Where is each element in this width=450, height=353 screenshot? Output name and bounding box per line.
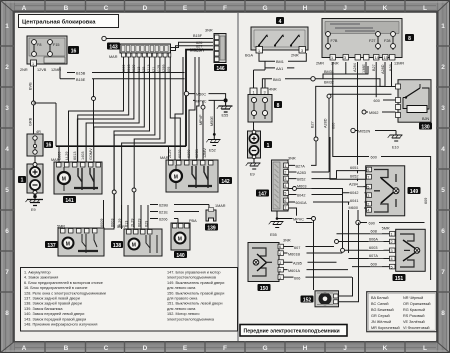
svg-text:6: 6 [279, 245, 281, 249]
svg-text:Передние электростеклоподъемни: Передние электростеклоподъемники [244, 329, 340, 335]
svg-text:608: 608 [371, 230, 377, 234]
svg-text:16: 16 [71, 48, 77, 54]
wires BM31 BM32 [315, 70, 348, 85]
svg-text:140: 140 [176, 253, 185, 259]
component label 147 [256, 190, 269, 198]
svg-text:D: D [143, 5, 148, 12]
bus drops to lock MAR pins [59, 146, 169, 162]
svg-text:BM1: BM1 [276, 60, 284, 64]
wire BM1 [259, 53, 306, 64]
svg-text:8: 8 [408, 36, 411, 42]
svg-text:BM3: BM3 [273, 78, 281, 82]
svg-text:2: 2 [5, 64, 9, 71]
svg-text:H: H [303, 5, 308, 12]
svg-text:600: 600 [374, 99, 380, 103]
wire 690 with node [356, 210, 425, 226]
ground E10 [388, 131, 403, 142]
svg-text:609: 609 [371, 262, 377, 266]
wire colour legend table [367, 292, 437, 332]
svg-text:BG Бежевый: BG Бежевый [371, 308, 394, 312]
svg-text:4. Замок зажигания: 4. Замок зажигания [24, 276, 58, 280]
svg-text:A28D: A28D [381, 64, 385, 74]
window switch 151 [382, 227, 426, 272]
bold bus wire to door locks [56, 145, 186, 147]
svg-text:1. Аккумулятор: 1. Аккумулятор [24, 271, 51, 275]
window switch 150 [248, 239, 291, 282]
passenger fuse box (right, label 8) [322, 19, 402, 61]
svg-text:6: 6 [284, 199, 286, 203]
svg-text:629B: 629B [195, 149, 199, 158]
svg-text:MPVF: MPVF [199, 114, 203, 125]
wire from B15E down to bus [93, 79, 95, 146]
svg-text:5: 5 [5, 187, 9, 194]
component label 149 [408, 187, 421, 195]
svg-text:147. Блок управления и мотор: 147. Блок управления и мотор [167, 271, 220, 275]
svg-text:K: K [383, 345, 388, 352]
svg-text:3NR: 3NR [283, 239, 291, 243]
svg-text:3: 3 [5, 105, 9, 112]
svg-text:629B: 629B [159, 204, 168, 208]
svg-text:146: 146 [216, 66, 225, 72]
svg-text:150. Выключатель правой двери: 150. Выключатель правой двери [167, 291, 224, 295]
svg-text:E10: E10 [392, 146, 399, 150]
svg-text:M600: M600 [349, 206, 359, 210]
component label 8 (right box) [405, 34, 414, 42]
svg-text:6013: 6013 [73, 152, 77, 160]
svg-text:RS Розовый: RS Розовый [403, 314, 424, 318]
connector 147 (window control unit) [272, 157, 296, 212]
svg-text:3NR: 3NR [205, 29, 213, 33]
svg-text:RG Красный: RG Красный [403, 308, 425, 312]
svg-text:600: 600 [332, 123, 336, 129]
wire MPVF vertical [202, 109, 204, 160]
svg-text:3NR: 3NR [288, 157, 296, 161]
svg-text:6206: 6206 [159, 218, 167, 222]
fuse F7B [327, 31, 329, 50]
svg-text:M601A: M601A [288, 269, 300, 273]
svg-text:606A: 606A [369, 237, 378, 241]
svg-text:6. Блок предохранителей в мото: 6. Блок предохранителей в моторном отсек… [24, 281, 103, 285]
svg-text:629: 629 [144, 221, 148, 227]
wire M062 [362, 109, 396, 115]
svg-text:2MR: 2MR [316, 62, 324, 66]
svg-text:B27A: B27A [296, 164, 306, 168]
svg-text:L: L [423, 345, 427, 352]
svg-text:2L29: 2L29 [168, 150, 172, 158]
svg-text:1: 1 [267, 143, 270, 149]
svg-text:2: 2 [279, 268, 281, 272]
svg-text:M601B: M601B [288, 252, 300, 256]
svg-text:BGA: BGA [245, 54, 253, 58]
ignition switch 4 [245, 27, 308, 58]
svg-text:2: 2 [284, 171, 286, 175]
svg-text:Центральная блокировка: Центральная блокировка [22, 19, 96, 26]
svg-text:NR Чёрный: NR Чёрный [403, 296, 423, 300]
svg-text:607A: 607A [369, 254, 378, 258]
node B15F with wire to 146 [102, 29, 213, 41]
svg-text:2: 2 [391, 240, 393, 244]
component label 6 [68, 46, 79, 54]
svg-text:6041: 6041 [350, 199, 358, 203]
svg-text:5MR: 5MR [382, 227, 390, 231]
svg-text:16: 16 [46, 143, 52, 149]
svg-text:2NR: 2NR [20, 68, 28, 72]
wire M50E vertical [213, 100, 215, 134]
svg-text:B27: B27 [372, 64, 376, 71]
svg-text:электростеклоподъемников: электростеклоподъемников [167, 276, 216, 280]
svg-text:148. Приемник инфракрасного из: 148. Приемник инфракрасного излучения [24, 323, 97, 327]
svg-text:149: 149 [410, 189, 419, 195]
svg-text:6: 6 [5, 228, 9, 235]
svg-text:L: L [423, 5, 427, 12]
147 pin wires and labels [289, 141, 349, 253]
interior fuse block 8 [248, 95, 272, 123]
svg-text:C: C [104, 345, 109, 352]
svg-text:F7B: F7B [331, 39, 338, 43]
svg-text:BC Синий: BC Синий [371, 302, 389, 306]
svg-text:E55: E55 [270, 233, 277, 237]
svg-text:152. Мотор левого: 152. Мотор левого [167, 312, 199, 316]
fuse block 16 [27, 130, 43, 156]
connector pins 1 3 (box 8 top) [250, 68, 277, 95]
svg-text:B15F: B15F [193, 34, 203, 38]
svg-text:BVB: BVB [29, 82, 33, 90]
svg-text:для правого окна: для правого окна [167, 297, 198, 301]
wires 626 627 to connector 146 [171, 42, 214, 50]
frame grid numbers right [441, 23, 445, 317]
svg-text:4: 4 [367, 209, 369, 213]
component label 139 [205, 224, 218, 232]
svg-text:2NR: 2NR [331, 62, 339, 66]
svg-text:7: 7 [441, 269, 445, 276]
svg-text:8: 8 [441, 310, 445, 317]
wire BM3 with node [262, 76, 315, 88]
svg-text:для левого окна: для левого окна [167, 307, 196, 311]
svg-text:130: 130 [421, 124, 430, 130]
svg-text:F28: F28 [384, 39, 391, 43]
svg-text:609: 609 [424, 198, 428, 204]
svg-text:140. Замок передней левой двер: 140. Замок передней левой двери [24, 312, 84, 316]
svg-text:A: A [22, 345, 27, 352]
svg-text:VE Зелёный: VE Зелёный [403, 320, 425, 324]
svg-text:J: J [343, 5, 347, 12]
pin wire labels below fuse box [316, 62, 404, 75]
wire 600 top [333, 66, 431, 280]
svg-text:7: 7 [5, 269, 9, 276]
pin 1 [31, 60, 37, 66]
title box Центральная блокировка [19, 15, 119, 28]
svg-text:4: 4 [279, 19, 282, 25]
svg-text:138: 138 [113, 243, 122, 249]
svg-text:1: 1 [21, 178, 24, 184]
svg-text:M603: M603 [297, 184, 307, 188]
svg-text:6029: 6029 [137, 219, 141, 227]
svg-text:M623A: M623A [190, 48, 205, 53]
component label 138 [111, 241, 123, 249]
component label 130 [419, 123, 432, 131]
svg-text:1: 1 [391, 233, 393, 237]
svg-text:MAR: MAR [51, 158, 60, 162]
svg-text:142: 142 [221, 179, 230, 185]
svg-text:1: 1 [258, 49, 260, 53]
pin squares bottom [330, 55, 395, 61]
svg-text:VI Фиолетовый: VI Фиолетовый [403, 326, 430, 330]
svg-text:6042: 6042 [350, 191, 358, 195]
svg-text:5MR: 5MR [117, 225, 125, 229]
relay 130 [396, 80, 432, 123]
frame grid letters top [22, 5, 427, 12]
component label 4 [276, 17, 284, 25]
svg-text:143: 143 [109, 44, 118, 50]
svg-text:4: 4 [391, 257, 393, 261]
wire AA1 [265, 61, 294, 71]
svg-text:1: 1 [32, 62, 34, 66]
component label 151 [393, 274, 406, 282]
fuse box 6 (engine bay fuse box) [20, 36, 67, 72]
svg-text:B15E: B15E [76, 78, 86, 82]
150 pin wires [284, 247, 353, 278]
svg-text:137. Замок задней левой двери: 137. Замок задней левой двери [24, 297, 80, 301]
svg-text:3: 3 [284, 177, 286, 181]
svg-text:600: 600 [371, 156, 377, 160]
wires between lock rows [104, 192, 149, 229]
svg-text:MPVC: MPVC [196, 99, 207, 103]
svg-text:M: M [132, 243, 136, 249]
svg-text:C: C [104, 5, 109, 12]
svg-text:2: 2 [441, 64, 445, 71]
svg-text:H: H [303, 345, 308, 352]
svg-text:E52: E52 [209, 149, 216, 153]
svg-text:606: 606 [294, 276, 300, 280]
svg-text:MAR: MAR [160, 156, 169, 160]
wire 629B [150, 202, 209, 208]
svg-text:OR Оранжевый: OR Оранжевый [403, 302, 431, 306]
svg-text:143. Замок передней правой две: 143. Замок передней правой двери [24, 317, 86, 321]
svg-text:1403: 1403 [81, 152, 85, 160]
wire M052N with ground E10 [351, 128, 396, 134]
svg-text:GR Серый: GR Серый [371, 314, 390, 318]
wires BM31/BM32 to relay [348, 66, 396, 87]
svg-text:3: 3 [441, 105, 445, 112]
wire MPVC lower [293, 216, 316, 290]
svg-text:8: 8 [5, 310, 9, 317]
svg-text:139. Замок багажника: 139. Замок багажника [24, 307, 63, 311]
svg-text:LL29: LL29 [65, 152, 69, 160]
svg-text:AA1: AA1 [276, 67, 283, 71]
svg-text:5: 5 [441, 187, 445, 194]
svg-text:B15B: B15B [76, 72, 86, 76]
svg-text:7: 7 [367, 176, 369, 180]
centre divider line [237, 13, 239, 341]
svg-text:6029: 6029 [178, 150, 182, 158]
svg-text:3: 3 [391, 249, 393, 253]
svg-text:1: 1 [5, 23, 9, 30]
svg-text:1: 1 [331, 56, 333, 60]
svg-text:138. Замок задней правой двери: 138. Замок задней правой двери [24, 302, 82, 306]
svg-text:B: B [64, 345, 69, 352]
svg-text:137: 137 [47, 243, 56, 249]
svg-text:128. Реле окна с электростекло: 128. Реле окна с электростеклоподъемника… [24, 291, 106, 295]
wire battery feed down from fuse box [33, 66, 35, 134]
svg-text:BJN: BJN [422, 117, 429, 121]
svg-text:F15: F15 [53, 43, 60, 47]
svg-text:13MR: 13MR [394, 62, 404, 66]
svg-text:4: 4 [284, 184, 286, 188]
door lock 138 (rear right) [117, 225, 162, 256]
svg-text:6003: 6003 [111, 219, 115, 227]
svg-text:PBA: PBA [189, 219, 197, 223]
svg-text:A: A [22, 5, 27, 12]
node on MPVC with branch MPVF [201, 105, 205, 109]
battery 1 (right diagram) [248, 122, 261, 159]
svg-text:F: F [223, 345, 227, 352]
svg-text:A284: A284 [349, 182, 358, 186]
svg-text:690: 690 [369, 222, 375, 226]
window switch 149 [366, 166, 405, 216]
svg-text:151. Выключатель левой двери: 151. Выключатель левой двери [167, 302, 222, 306]
151 pin wires [337, 234, 390, 267]
svg-text:G: G [262, 345, 267, 352]
svg-text:6042: 6042 [297, 194, 305, 198]
svg-text:6299: 6299 [187, 150, 191, 158]
node A (junction on battery feed) [32, 101, 36, 105]
frame grid numbers left [5, 23, 9, 317]
battery 1 [27, 156, 43, 195]
fuse F8 [33, 41, 35, 56]
svg-text:электростеклоподъемника: электростеклоподъемника [167, 317, 215, 321]
boot lock 140 [171, 219, 197, 250]
svg-text:4: 4 [279, 252, 281, 256]
legend box [21, 268, 238, 332]
svg-text:6: 6 [441, 228, 445, 235]
wire 600 to relay [372, 62, 396, 103]
fuse F28 [392, 31, 394, 50]
svg-text:7: 7 [284, 206, 286, 210]
152 wires [338, 222, 359, 301]
svg-text:E55: E55 [222, 114, 229, 118]
svg-text:B: B [64, 5, 69, 12]
svg-text:3: 3 [367, 194, 369, 198]
svg-text:1: 1 [279, 276, 281, 280]
svg-text:141: 141 [65, 198, 74, 204]
svg-text:J: J [343, 345, 347, 352]
wire B15E [60, 67, 185, 82]
svg-text:3: 3 [344, 56, 346, 60]
svg-text:4: 4 [5, 146, 9, 153]
ground E9 (right battery earth) [246, 158, 261, 169]
svg-text:1: 1 [284, 164, 286, 168]
junction circles between lock rows [112, 190, 116, 194]
wires into 149 [330, 62, 392, 208]
svg-text:M50E: M50E [210, 116, 214, 126]
svg-text:138E: 138E [362, 64, 366, 73]
svg-text:D: D [143, 345, 148, 352]
svg-text:для левого окна: для левого окна [167, 286, 196, 290]
svg-text:607: 607 [294, 246, 300, 250]
svg-text:8: 8 [277, 103, 280, 109]
svg-text:12MV: 12MV [203, 148, 207, 158]
svg-text:1: 1 [441, 23, 445, 30]
fuse F27 [377, 31, 379, 50]
svg-text:5: 5 [367, 185, 369, 189]
component label 137 [45, 241, 58, 249]
connector 143 [107, 43, 171, 60]
svg-text:MR Коричневый: MR Коричневый [371, 326, 400, 330]
svg-text:5: 5 [284, 192, 286, 196]
svg-text:A28D: A28D [324, 118, 328, 128]
component label 150 [258, 284, 271, 292]
svg-text:3: 3 [264, 90, 266, 94]
svg-text:6052: 6052 [350, 175, 358, 179]
svg-text:147: 147 [258, 191, 267, 197]
component label 1 [18, 176, 26, 184]
svg-text:M: M [62, 177, 66, 183]
svg-text:M: M [66, 242, 70, 248]
door lock 142 (front right) [160, 156, 218, 192]
svg-text:5: 5 [391, 265, 393, 269]
svg-text:3: 3 [301, 49, 303, 53]
component label 142 [219, 177, 232, 185]
svg-text:3: 3 [279, 261, 281, 265]
svg-text:M50C: M50C [196, 93, 206, 97]
svg-text:6051: 6051 [350, 166, 358, 170]
ground E55 upper [217, 100, 233, 112]
svg-text:E9: E9 [31, 208, 36, 212]
svg-text:MPVC: MPVC [293, 218, 304, 222]
svg-text:B27: B27 [311, 121, 315, 128]
svg-text:M: M [178, 237, 182, 243]
svg-text:F27: F27 [369, 39, 376, 43]
wire 6206 [150, 216, 178, 223]
svg-text:16. Блок предохранителей в сал: 16. Блок предохранителей в салоне [24, 286, 88, 290]
svg-text:6052: 6052 [297, 178, 305, 182]
svg-text:GOMV: GOMV [89, 148, 93, 160]
junction dot on M50E [213, 133, 216, 136]
svg-text:M052N: M052N [358, 130, 370, 134]
component label 152 [301, 296, 314, 304]
svg-text:6: 6 [367, 168, 369, 172]
wire from node A to bold bus [34, 102, 57, 104]
svg-text:F: F [223, 5, 227, 12]
svg-text:A283: A283 [297, 171, 306, 175]
svg-text:139: 139 [207, 225, 216, 231]
svg-text:JN Жёлтый: JN Жёлтый [371, 320, 391, 324]
svg-text:M: M [174, 175, 178, 181]
svg-text:1MAR: 1MAR [215, 204, 226, 208]
ground E9 (battery earth) [26, 193, 44, 206]
node on divider feed [314, 137, 318, 141]
wire fan from connector 143 down to locks [69, 57, 200, 229]
door lock 137 (rear left) [57, 225, 104, 257]
svg-text:15: 15 [384, 56, 388, 60]
svg-text:4R: 4R [36, 130, 41, 134]
connector 139 [206, 204, 226, 221]
svg-text:2L29: 2L29 [130, 219, 134, 227]
svg-text:E9: E9 [250, 173, 255, 177]
ground E55 under 147 [269, 211, 294, 228]
wire B15B [67, 70, 185, 76]
connector 146 [214, 34, 227, 72]
svg-text:14: 14 [375, 56, 379, 60]
svg-text:6003: 6003 [369, 246, 377, 250]
bottom caption box Передние электростеклоподъемники [240, 325, 347, 337]
svg-text:A284: A284 [353, 63, 357, 72]
wire codes above lock 138 [100, 219, 148, 227]
ground E52 [206, 134, 220, 145]
svg-text:6009: 6009 [100, 219, 104, 227]
svg-text:G: G [262, 5, 267, 12]
wire codes above right lock [168, 148, 207, 158]
